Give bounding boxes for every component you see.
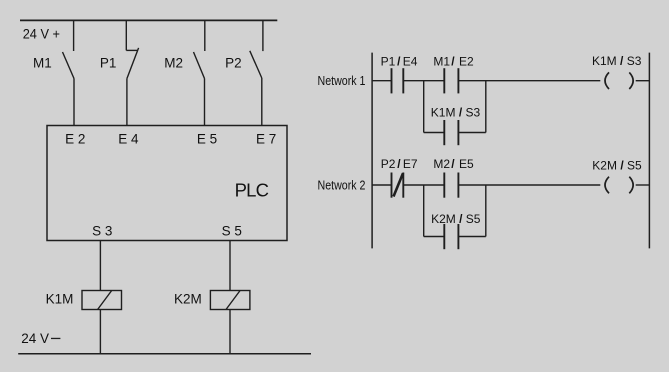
svg-text:E 7: E 7 bbox=[256, 131, 276, 146]
wire branch1 right seg bbox=[458, 132, 485, 134]
svg-text:K2M: K2M bbox=[174, 292, 202, 307]
contact M2/E5 bbox=[444, 173, 458, 198]
coil K2M/S5 bbox=[605, 177, 633, 194]
contact P1/E4 bbox=[392, 68, 404, 93]
wire K1M to 24V- bbox=[99, 310, 101, 354]
wire S3 to K1M bbox=[99, 241, 101, 291]
switch P2 bbox=[250, 20, 263, 126]
svg-text:24 V +: 24 V + bbox=[23, 27, 60, 42]
svg-text:24 V: 24 V bbox=[21, 331, 49, 346]
wire branch1 left seg bbox=[424, 132, 445, 134]
svg-text:M1/E2: M1/E2 bbox=[433, 54, 474, 68]
switch P1 (NC) bbox=[126, 20, 138, 126]
ladder right rail bbox=[648, 53, 650, 249]
svg-text:K2M / S5: K2M / S5 bbox=[431, 212, 481, 226]
wire branch2 left drop bbox=[423, 185, 425, 237]
svg-text:M1: M1 bbox=[33, 55, 52, 70]
wire rung1 to coil bbox=[458, 80, 600, 82]
contact K1M/S3 (hold) bbox=[444, 120, 458, 145]
wire branch2 right seg bbox=[458, 236, 485, 238]
svg-text:P1: P1 bbox=[100, 55, 117, 70]
svg-text:M2: M2 bbox=[164, 55, 183, 70]
ladder left rail bbox=[371, 53, 373, 249]
svg-text:K1M: K1M bbox=[46, 292, 74, 307]
svg-text:K1M / S3: K1M / S3 bbox=[431, 106, 481, 120]
svg-text:PLC: PLC bbox=[235, 180, 269, 201]
wire rung2 mid bbox=[403, 184, 444, 186]
contact M1/E2 bbox=[444, 68, 458, 93]
svg-text:S 3: S 3 bbox=[92, 223, 112, 238]
coil K1M/S3 bbox=[605, 72, 633, 89]
svg-text:P1/E4: P1/E4 bbox=[381, 54, 418, 68]
svg-text:K1M / S3: K1M / S3 bbox=[592, 54, 642, 68]
svg-text:E 5: E 5 bbox=[197, 131, 217, 146]
wire coil2 to rail bbox=[636, 184, 650, 186]
svg-text:Network 2: Network 2 bbox=[318, 178, 366, 192]
svg-text:K2M / S5: K2M / S5 bbox=[592, 159, 642, 173]
wire branch1 left drop bbox=[423, 81, 425, 133]
wire rung2 start bbox=[372, 184, 391, 186]
PLC box U1 bbox=[47, 126, 287, 241]
svg-text:E 2: E 2 bbox=[65, 131, 85, 146]
switch M1 bbox=[63, 20, 75, 126]
svg-text:Network 1: Network 1 bbox=[318, 74, 366, 88]
relay coil K2M bbox=[210, 291, 250, 310]
svg-text:E 4: E 4 bbox=[118, 131, 139, 146]
wire K2M to 24V- bbox=[229, 310, 231, 354]
svg-text:M2/E5: M2/E5 bbox=[433, 157, 474, 171]
contact P2/E7 (NC) bbox=[392, 173, 404, 198]
switch M2 bbox=[194, 20, 205, 126]
wire rung2 to coil bbox=[458, 184, 600, 186]
contact K2M/S5 (hold) bbox=[444, 224, 458, 249]
node 24V- return bus bbox=[18, 353, 311, 355]
wire branch1 right drop bbox=[485, 81, 487, 133]
svg-text:S 5: S 5 bbox=[222, 223, 242, 238]
relay coil K1M bbox=[82, 291, 122, 310]
wire S5 to K2M bbox=[229, 241, 231, 291]
svg-text:P2: P2 bbox=[225, 55, 242, 70]
svg-text:P2/E7: P2/E7 bbox=[381, 157, 418, 171]
wire rung1 start bbox=[372, 80, 391, 82]
wire branch2 right drop bbox=[485, 185, 487, 237]
wire coil1 to rail bbox=[636, 80, 650, 82]
node 24V+ supply bus bbox=[20, 19, 277, 21]
wire branch2 left seg bbox=[424, 236, 445, 238]
wire rung1 mid bbox=[403, 80, 444, 82]
